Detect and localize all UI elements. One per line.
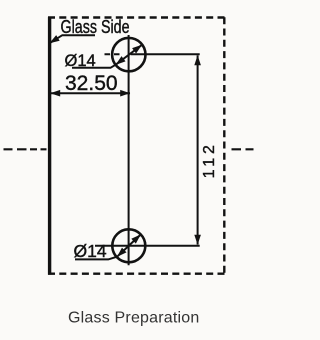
- svg-text:32.50: 32.50: [65, 72, 118, 95]
- svg-text:Glass Side: Glass Side: [61, 16, 130, 37]
- svg-text:Ø14: Ø14: [74, 241, 107, 261]
- svg-text:Glass Preparation: Glass Preparation: [68, 310, 199, 327]
- svg-text:112: 112: [201, 141, 218, 178]
- svg-text:Ø14: Ø14: [65, 52, 96, 70]
